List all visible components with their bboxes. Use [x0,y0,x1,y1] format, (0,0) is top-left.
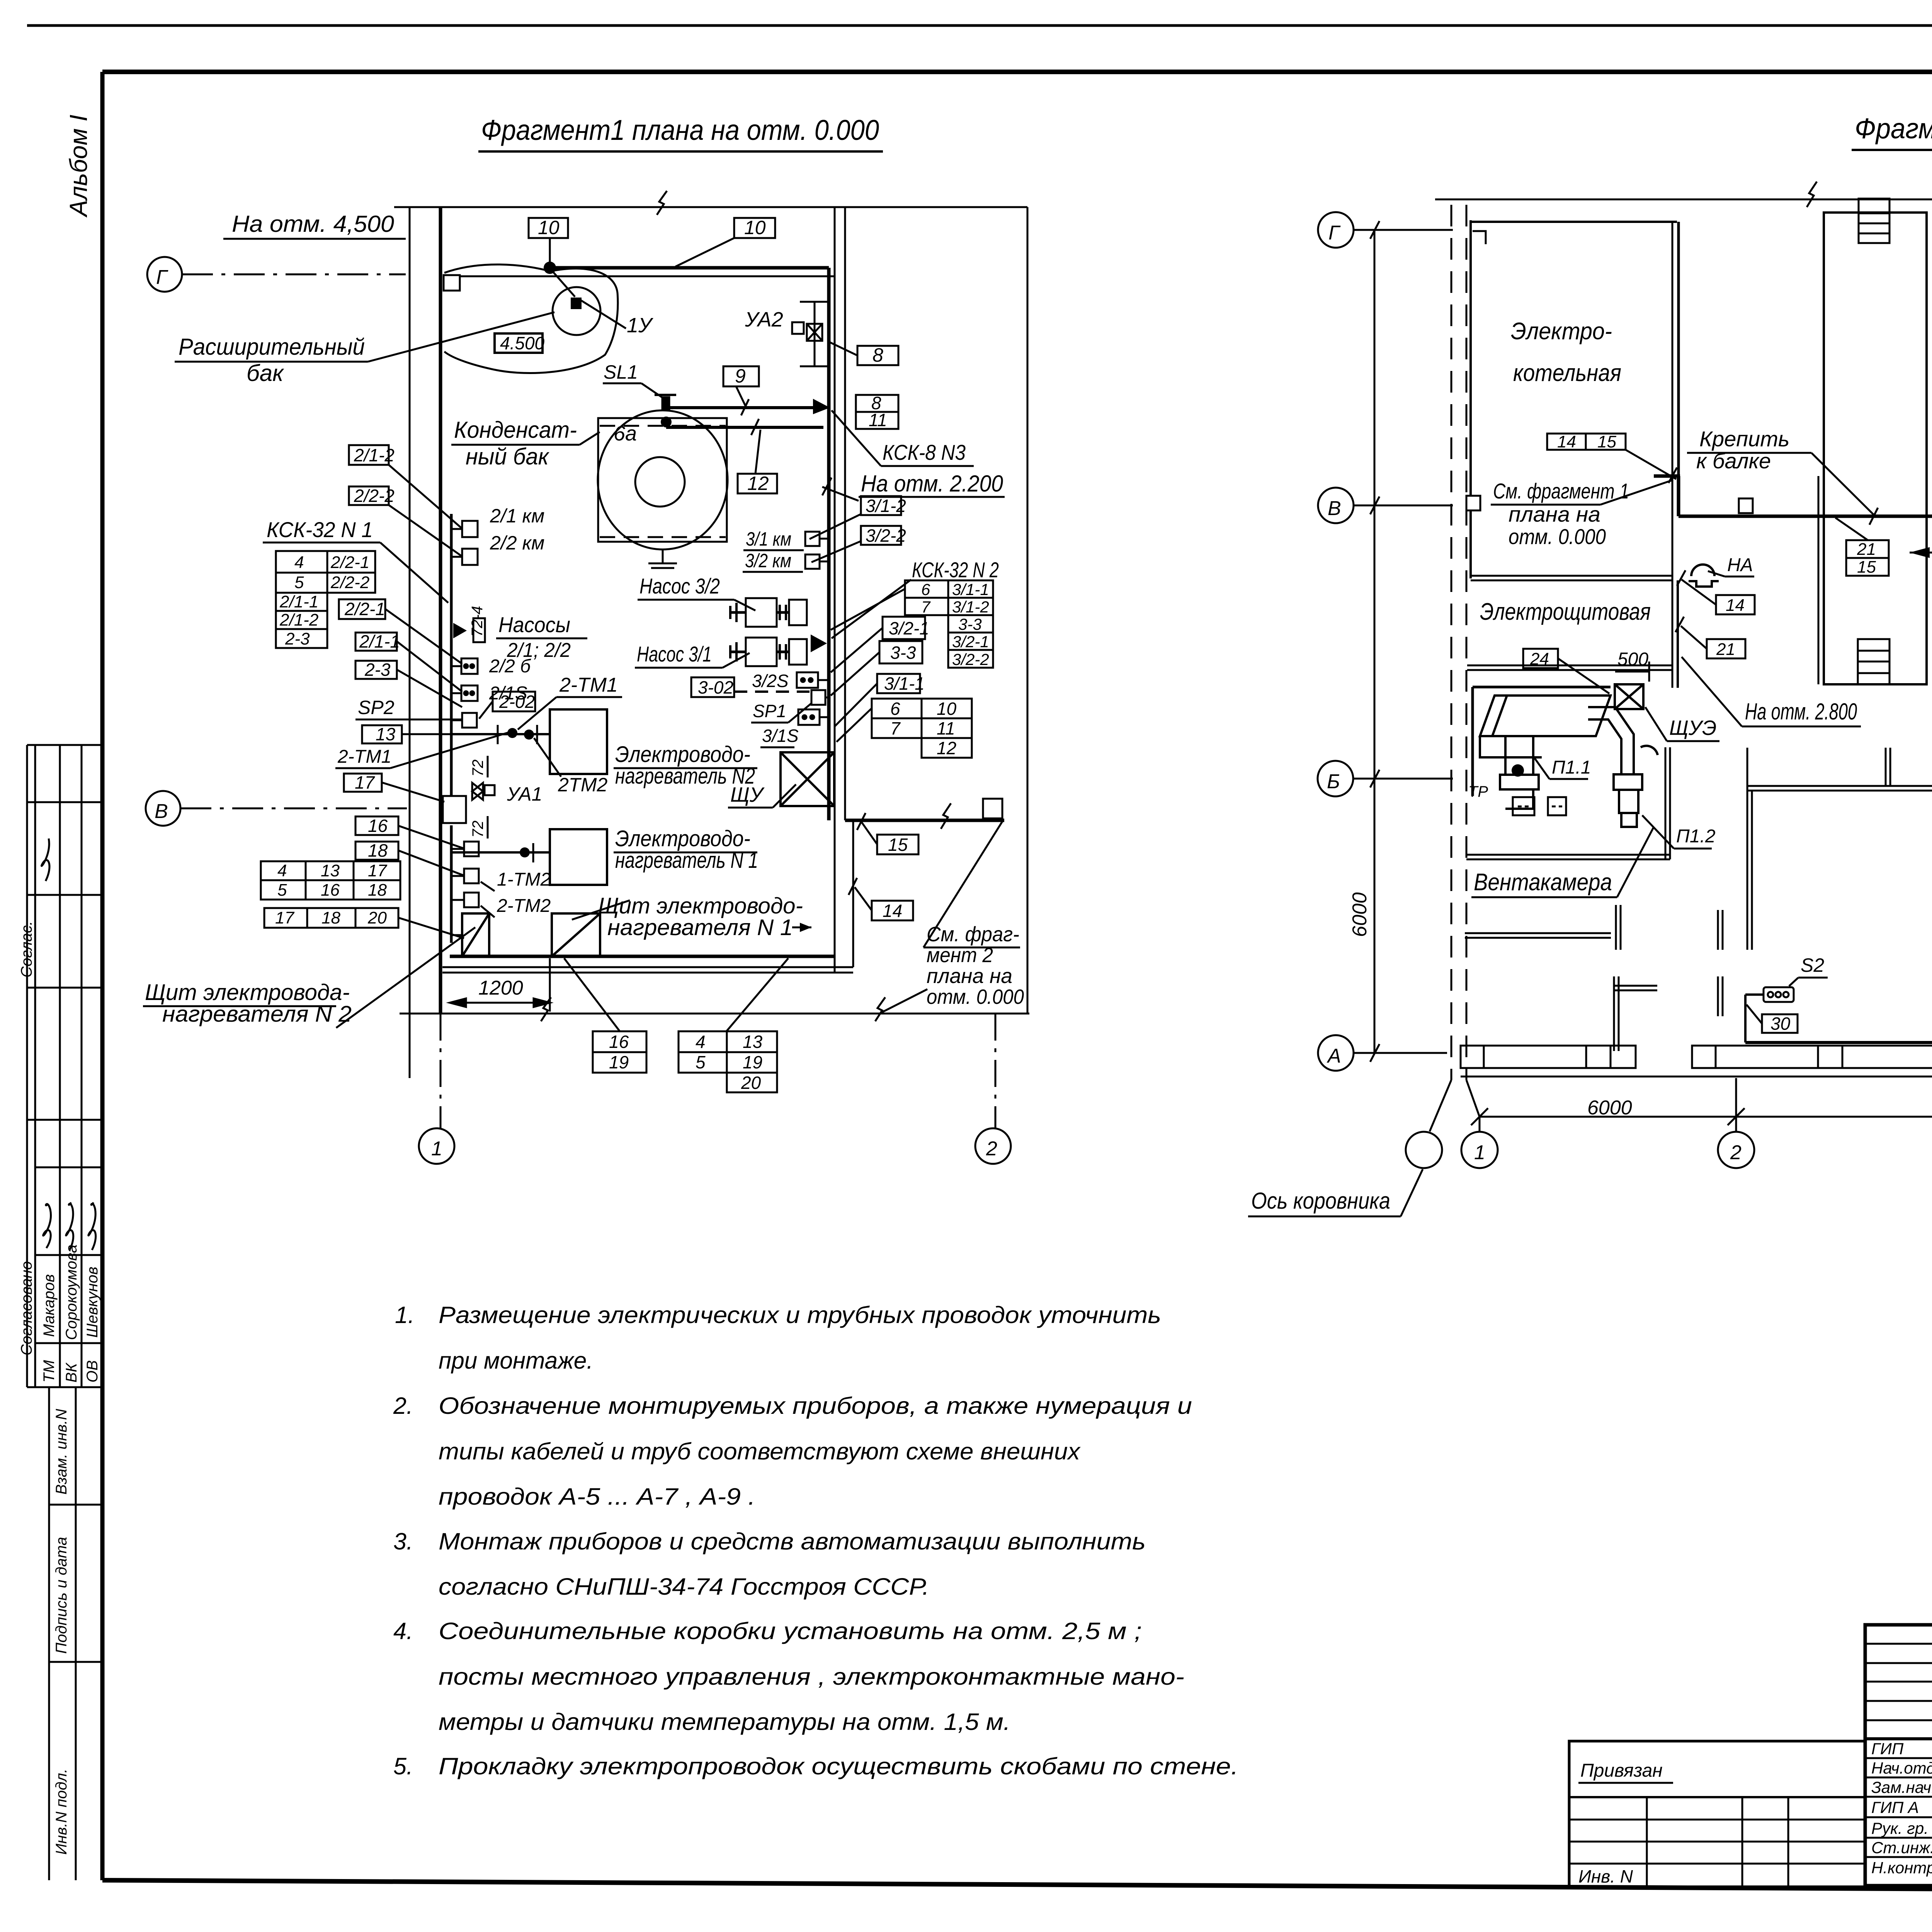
leader box10 to dot [549,238,551,263]
svg-text:3-3: 3-3 [958,615,982,633]
svg-text:4: 4 [696,1032,706,1052]
bottom double wall lines [442,966,853,968]
svg-text:ЩУ: ЩУ [730,783,765,806]
svg-text:15: 15 [1857,558,1876,577]
svg-text:Насосы: Насосы [498,612,570,637]
inner frame top [102,70,1932,74]
svg-text:19: 19 [609,1052,629,1072]
main cable 10 horizontal [550,266,829,270]
svg-text:3/1-2: 3/1-2 [866,496,906,516]
svg-text:Ст.инж.: Ст.инж. [1871,1838,1932,1857]
svg-text:3/1-1: 3/1-1 [884,673,925,694]
svg-text:SP2: SP2 [358,697,395,718]
svg-text:ТР: ТР [1468,783,1488,800]
svg-text:SP1: SP1 [753,701,786,721]
axis drops to circles [1430,1078,1932,1132]
box 2-02 [493,692,535,712]
svg-text:13: 13 [321,861,340,880]
svg-text:Конденсат-: Конденсат- [454,417,577,443]
svg-text:2/1 км: 2/1 км [490,505,544,527]
svg-text:11: 11 [937,718,955,738]
condensate tank ellipse [598,410,728,549]
box 4.500 [495,333,545,353]
svg-text:УА1: УА1 [507,783,542,805]
svg-text:10: 10 [744,217,766,238]
svg-text:SL1: SL1 [604,361,638,383]
svg-text:Крепить: Крепить [1699,427,1789,451]
axis Г circle [1318,212,1354,248]
svg-text:72-4: 72-4 [469,606,486,637]
svg-text:13: 13 [376,724,396,744]
svg-text:Фрагмент 2 плана на отм. 0.0: Фрагмент 2 плана на отм. 0.000 [1855,112,1932,145]
svg-text:А: А [1327,1045,1341,1067]
sheet outer top trim line [27,24,1932,27]
svg-text:9: 9 [735,365,746,387]
stamp upper table grid [27,744,102,746]
svg-text:6000: 6000 [1349,892,1371,937]
pump symbol (насосы 2/1 2/2) [453,623,467,638]
svg-text:17: 17 [275,908,294,927]
svg-text:20: 20 [741,1073,761,1093]
heater N1 supply line with dot [451,851,550,854]
right boundary thin line [1027,207,1029,1014]
bottom axis circles [1406,1132,1932,1168]
axis А circle [1318,1035,1354,1071]
SL1 device on tank [655,395,676,411]
box 15 [877,835,918,855]
duct unit П1.2 [1588,707,1658,827]
box 16 [355,816,398,836]
connector 2/2б [461,658,478,674]
svg-text:Расширительный: Расширительный [179,334,365,360]
axis Б circle [1318,761,1353,796]
svg-text:Обозначение монтируемых приб: Обозначение монтируемых приборов, а такж… [439,1393,1192,1419]
break mark on top line [657,191,667,215]
partition walls below vent room [1465,905,1657,1051]
svg-text:Соединительные коробки устан: Соединительные коробки установить на отм… [439,1618,1142,1644]
svg-text:1: 1 [431,1138,442,1160]
svg-text:согласно СНиПШ-34-74 Госстро: согласно СНиПШ-34-74 Госстроя СССР. [439,1573,929,1600]
flow arrow into wall [813,399,830,414]
box 14 [872,901,913,921]
svg-text:16: 16 [609,1032,629,1052]
svg-text:2/2-2: 2/2-2 [330,573,369,592]
svg-text:2-3: 2-3 [364,660,391,680]
svg-text:8: 8 [872,344,883,366]
svg-text:2/2 км: 2/2 км [490,532,544,554]
svg-text:ГИП: ГИП [1871,1740,1904,1758]
svg-text:4.: 4. [393,1618,413,1644]
bottom trough strip [1461,1046,1932,1077]
svg-text:13: 13 [743,1032,763,1052]
small square end of wall [983,799,1002,818]
axis Г circle [147,257,182,292]
box 13 [362,724,402,744]
stamp rotated texts [18,921,101,1855]
svg-text:4: 4 [294,553,304,572]
box 2/1-1 [355,631,400,651]
svg-text:В: В [1328,497,1341,520]
box 30 left [1762,1014,1798,1034]
svg-text:Б: Б [1327,770,1340,793]
cable from fragment1 entering: vertical then right [1654,474,1680,478]
svg-text:2/1-1: 2/1-1 [359,631,400,651]
svg-text:Нач.отд.: Нач.отд. [1871,1759,1932,1777]
bottom table 16/19 [593,1031,646,1073]
svg-text:30: 30 [1770,1014,1791,1034]
horizontal row lines (left part) [1865,1643,1932,1645]
svg-text:2.: 2. [393,1393,413,1419]
box 21 (f2 wall) [1707,639,1745,659]
svg-text:11: 11 [869,410,887,430]
svg-text:Макаров: Макаров [41,1274,58,1337]
main cable vertical along right wall [827,268,831,820]
label НА + symbol [1689,565,1719,587]
box 10 (second) [734,217,775,238]
left table A [276,551,375,648]
left stamp texts [1871,1740,1932,1877]
svg-text:72: 72 [469,821,486,838]
svg-text:18: 18 [368,881,387,900]
svg-text:Размещение электрических и: Размещение электрических и трубных прово… [439,1302,1161,1328]
svg-text:3/1 км: 3/1 км [746,528,791,550]
svg-text:12: 12 [937,738,956,758]
svg-text:Шевкунов: Шевкунов [84,1267,101,1338]
panel N1 (bottom mid) [552,913,600,956]
box 3/1-2 [861,496,906,516]
svg-text:2/2-2: 2/2-2 [354,486,395,506]
valve УА2 assembly [792,302,829,366]
svg-text:14: 14 [1557,432,1576,451]
bottom dimension line [1480,1116,1932,1118]
svg-text:7: 7 [921,598,931,616]
axis В circle [1318,488,1354,523]
svg-text:ный бак: ный бак [466,444,550,469]
box 2/1-2 [349,445,395,465]
bottom boundary thin line [400,1013,1029,1015]
svg-text:ЩУЭ: ЩУЭ [1669,716,1716,740]
box 8 [857,344,898,366]
svg-text:Г: Г [156,266,168,289]
Привязан table [1569,1741,1865,1887]
svg-text:6а: 6а [614,422,637,445]
svg-text:2/1-2: 2/1-2 [354,445,395,465]
svg-text:Инв. N: Инв. N [1578,1866,1633,1886]
box 8/11 [856,393,898,430]
svg-text:6000: 6000 [1587,1097,1632,1119]
svg-text:S2: S2 [1801,954,1824,976]
svg-text:П1.2: П1.2 [1676,826,1716,847]
boiler room walls [1471,220,1679,688]
duct unit П1.1 [1480,696,1611,809]
svg-text:12: 12 [747,473,769,494]
right wall to fragment2 with break [845,819,1004,822]
svg-text:17: 17 [355,772,375,793]
box 18 [355,840,398,861]
svg-text:3-02: 3-02 [698,677,733,697]
room top wall inner line [460,276,835,277]
box 3/2-1 [883,617,929,639]
svg-text:2/2-1: 2/2-1 [330,553,369,572]
svg-text:3/1-1: 3/1-1 [952,580,989,599]
svg-text:Зам.нач.: Зам.нач. [1871,1778,1932,1796]
svg-text:2/2-1: 2/2-1 [344,599,385,619]
svg-text:4.500: 4.500 [500,333,545,353]
svg-text:2: 2 [1730,1141,1742,1164]
svg-text:Взам. инв.N: Взам. инв.N [53,1409,70,1495]
svg-text:3/2-1: 3/2-1 [952,633,989,651]
leaders from boxes to wall connectors [389,465,462,529]
heater N2 supply line with dots 2-ТМ1 [451,733,550,735]
svg-text:3/1S: 3/1S [762,726,799,746]
svg-text:2/1-2: 2/1-2 [279,611,318,629]
S2 device [1764,987,1794,1002]
svg-text:2-ТМ2: 2-ТМ2 [497,896,551,916]
leader tank to 1У [578,298,626,328]
svg-text:На отм. 4,500: На отм. 4,500 [232,211,394,237]
box 3-3 [879,641,922,663]
condensate tank rectangle [598,418,727,542]
svg-text:П1.1: П1.1 [1552,757,1591,778]
wall connectors 1-ТМ2 2-ТМ2 [464,842,479,856]
svg-text:10: 10 [937,699,957,719]
svg-text:бак: бак [247,360,284,386]
tank dashed chords [600,425,726,427]
svg-text:3.: 3. [393,1528,413,1554]
svg-text:Привязан: Привязан [1580,1760,1663,1781]
svg-text:6: 6 [921,580,930,599]
svg-text:2/2 б: 2/2 б [489,656,531,677]
svg-text:Н.контр.: Н.контр. [1871,1859,1932,1877]
milk room walls [1747,748,1932,1039]
axis 1 bottom [440,1014,442,1128]
wall connector 2/2км [462,549,478,565]
svg-text:ТМ: ТМ [41,1360,58,1383]
svg-text:Насос 3/1: Насос 3/1 [637,642,712,666]
leader from Щит N1 text to panel [572,900,630,920]
svg-text:Монтаж приборов и средств: Монтаж приборов и средств автоматизации … [439,1528,1146,1554]
УА1 valve [472,783,495,800]
svg-text:3/2-1: 3/2-1 [889,618,929,638]
svg-text:На отм. 2.200: На отм. 2.200 [861,471,1003,497]
svg-text:3-3: 3-3 [890,643,916,663]
stamp lower narrow table [48,1387,50,1880]
svg-text:3/2-2: 3/2-2 [952,650,989,668]
connectors 3/1км 3/2км on right wall [805,532,820,546]
svg-text:при монтаже.: при монтаже. [439,1347,593,1374]
bottom room wall cable [450,955,835,958]
svg-text:На отм. 2.800: На отм. 2.800 [1745,699,1857,724]
svg-text:КСК-32 N 2: КСК-32 N 2 [912,558,999,582]
cable 9 from SL1 to wall [666,406,813,409]
top boundary wall line [1435,199,1932,201]
svg-text:16: 16 [368,816,388,836]
right table 6/10 7/11 12 [872,699,972,758]
svg-text:2/1-1: 2/1-1 [279,592,318,611]
svg-text:19: 19 [743,1052,762,1072]
box 14 (f2) [1716,595,1755,615]
left building axis dashed lines [1451,205,1452,1080]
box 3-02 and dashed line [691,677,734,697]
stamp signatures squiggles [42,838,96,1250]
svg-text:проводок А-5 ... А-7 , А-9 .: проводок А-5 ... А-7 , А-9 . [439,1483,755,1510]
left row 17|18|20 [264,908,398,928]
box 3/1-1 [877,673,925,694]
svg-text:Инв.N подл.: Инв.N подл. [53,1769,70,1855]
svg-text:7: 7 [890,718,901,738]
connector SP2 [462,713,477,728]
vertical dimension line 6000 [1374,230,1376,1053]
svg-text:5.: 5. [393,1753,413,1779]
room right wall lines [834,207,836,973]
column squares [1739,223,1932,792]
svg-text:отм. 0.000: отм. 0.000 [1509,524,1606,549]
heater N1 rect [550,829,607,885]
svg-text:ГИП А: ГИП А [1871,1798,1919,1816]
axis В circle [146,791,180,826]
milk room bottom cable [1745,1041,1932,1044]
corridor east wall [1818,476,1820,684]
column square on axis [1466,496,1480,510]
box 24 [1523,649,1558,668]
expansion tank sensor square [571,298,582,309]
svg-text:72: 72 [469,760,486,777]
cable junction dot [544,262,556,274]
axis Г dash-dot line [182,274,406,276]
svg-text:ОВ: ОВ [84,1360,101,1383]
flow arrow pumps to wall [811,634,827,652]
svg-text:1: 1 [1474,1141,1485,1164]
svg-text:Электро-: Электро- [1511,318,1612,345]
svg-text:21: 21 [1716,640,1735,659]
leader from tank to cable dot [552,270,575,297]
ЩУЭ crossed box [1615,684,1643,709]
box 9 [723,365,759,387]
svg-text:В: В [155,800,168,823]
svg-text:14: 14 [1726,596,1745,615]
svg-text:3/2 км: 3/2 км [745,550,791,571]
axis 2 bottom [995,1014,997,1128]
small window box top-left corner [444,275,460,291]
svg-text:10: 10 [538,217,560,238]
leader lines from bottom tables to panels [564,958,620,1031]
box 2/2-2 [349,486,395,506]
connector 2/1S [461,685,478,701]
svg-text:2ТМ2: 2ТМ2 [558,774,608,796]
box 3/2-2 [861,526,906,546]
cable jog box [443,796,466,823]
svg-text:НА: НА [1727,555,1753,575]
svg-text:17: 17 [368,861,387,880]
heater N2 rect [550,709,607,774]
svg-text:5: 5 [696,1052,706,1072]
electro panel room bottom walls [1467,665,1672,667]
svg-text:2: 2 [986,1138,997,1160]
svg-text:18: 18 [368,840,388,861]
left wall outer line [409,207,411,1078]
svg-text:Подпись и дата: Подпись и дата [53,1537,70,1654]
wall cable vertical with ticks [450,514,453,795]
big platform rect 1 [1824,199,1927,684]
tank bottom flange [648,549,677,568]
svg-text:3/1-2: 3/1-2 [952,598,989,616]
svg-text:Альбом I: Альбом I [65,114,92,218]
svg-text:КСК-8 N3: КСК-8 N3 [883,440,966,464]
inner frame bottom [102,1880,1932,1893]
tank inner circle [635,457,685,507]
svg-text:15: 15 [888,835,908,855]
svg-text:18: 18 [321,908,340,927]
box 2-3 [355,660,397,680]
svg-text:Прокладку электропроводок о: Прокладку электропроводок осуществить ск… [439,1753,1238,1779]
leader box10b to cable [675,238,734,267]
svg-text:плана на: плана на [927,964,1012,988]
svg-text:5: 5 [294,573,304,592]
vent equipment boxes [1513,797,1566,815]
svg-text:нагревателя N 1: нагревателя N 1 [607,915,793,940]
main cable to devices [1679,515,1932,518]
svg-text:1200: 1200 [478,977,523,999]
svg-text:метры и датчики температуры: метры и датчики температуры на отм. 1,5 … [439,1709,1010,1735]
svg-text:15: 15 [1597,432,1616,451]
inner frame left [100,72,105,1880]
svg-text:500: 500 [1617,649,1648,670]
svg-text:КСК-32 N 1: КСК-32 N 1 [267,517,373,542]
svg-text:1У: 1У [627,314,653,337]
leader to expansion tank [368,312,554,362]
svg-text:Насос 3/2: Насос 3/2 [639,574,720,598]
box 10 (first) [529,217,568,238]
svg-text:отм. 0.000: отм. 0.000 [927,985,1024,1009]
left wall inner line [439,207,442,1014]
partition stubs in milk area [1718,748,1890,1016]
main stamp outer border [1865,1625,1932,1886]
svg-text:6: 6 [890,699,900,719]
right upper table 6,7 / 3/1-1,3/1-2,3-3,3/2-1,3/2-2 [905,580,993,668]
svg-text:20: 20 [367,908,387,927]
svg-text:3/2S: 3/2S [752,671,789,691]
svg-text:Соглас.: Соглас. [18,921,35,978]
left table B 3x2 [261,861,400,900]
svg-text:См. фраг-: См. фраг- [927,923,1019,946]
svg-text:котельная: котельная [1513,360,1621,386]
box 21/15 stacked [1846,540,1889,576]
ЩУ crossed box [781,752,834,806]
top boundary wall line [394,206,1027,208]
expansion tank circle [553,287,600,335]
svg-text:1.: 1. [395,1302,415,1328]
cable 12 junction dot [661,417,672,427]
svg-text:1-ТМ2: 1-ТМ2 [497,869,551,890]
axis В dash-dot line [180,808,407,810]
svg-text:24: 24 [1530,650,1549,668]
svg-text:4: 4 [277,861,287,880]
svg-text:УА2: УА2 [745,308,783,331]
svg-text:Согласовано: Согласовано [18,1261,35,1355]
svg-text:3/2-2: 3/2-2 [866,526,906,546]
svg-text:Рук. гр.: Рук. гр. [1871,1819,1929,1837]
box 12 [738,473,777,494]
svg-text:16: 16 [321,881,340,900]
wall connector 2/1км [462,521,478,537]
box 2/2-1 [339,599,385,619]
svg-text:Сорокоумова: Сорокоумова [63,1245,80,1340]
svg-text:2-02: 2-02 [499,692,535,712]
svg-text:Фрагмент1 плана на отм. 0.00: Фрагмент1 плана на отм. 0.000 [481,114,879,146]
svg-text:14: 14 [883,901,902,921]
connector boxes 14 15 [1547,434,1626,450]
panel N2 (bottom-left) [462,913,489,956]
